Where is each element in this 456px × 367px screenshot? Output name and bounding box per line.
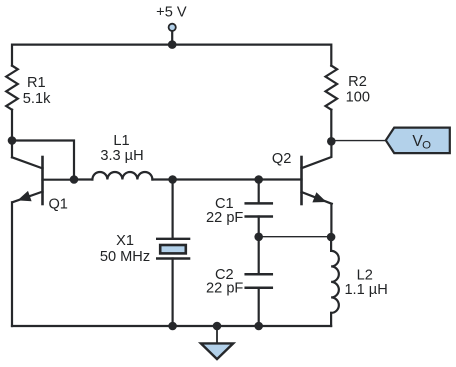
junction: Q1 base node [70, 175, 79, 184]
svg-text:50 MHz: 50 MHz [100, 249, 150, 265]
junction: L2 top node [327, 233, 336, 242]
wire: L2 bottom to ground rail [330, 313, 332, 326]
capacitor C2 [246, 274, 272, 288]
junction: X1 top node [168, 175, 177, 184]
wire: X1 bottom lead to ground rail [172, 259, 174, 327]
svg-text:100: 100 [346, 89, 370, 105]
wire: midpoint to C2 top [258, 237, 260, 274]
resistor R1 [6, 66, 18, 110]
crystal X1 [157, 239, 189, 259]
wire: midpoint node to L2 node (thin) [259, 236, 331, 238]
resistor R2 [325, 66, 337, 110]
svg-text:X1: X1 [116, 233, 134, 249]
power terminal +5V [169, 24, 176, 45]
wire: Q1 emitter down left rail to ground rail [11, 202, 13, 326]
wire: top supply rail with left and right drops [12, 45, 331, 66]
svg-text:Q1: Q1 [48, 197, 67, 213]
svg-text:22 pF: 22 pF [206, 210, 243, 226]
junction: C2 bottom on ground rail [254, 322, 263, 331]
ground [201, 326, 233, 359]
junction: output node [327, 137, 336, 146]
svg-text:R2: R2 [348, 74, 367, 90]
inductor L1 [92, 172, 152, 180]
svg-text:3.3 µH: 3.3 µH [100, 148, 143, 164]
wire: X1 top lead [172, 180, 174, 239]
wire: Q1 base node to L1 [74, 178, 92, 180]
wire: C2 bottom lead to ground rail [258, 288, 260, 326]
svg-text:R1: R1 [27, 75, 46, 91]
svg-text:L1: L1 [113, 133, 129, 149]
wire: R2 bottom to output node [330, 110, 332, 141]
output tag VO [386, 128, 450, 154]
junction: X1 bottom on ground rail [168, 322, 177, 331]
capacitor C1 [246, 203, 272, 216]
inductor L2 [331, 251, 339, 313]
junction: +5V node on top rail [168, 40, 177, 49]
svg-text:Q2: Q2 [272, 151, 291, 167]
transistor Q1 [12, 157, 74, 204]
svg-text:+5 V: +5 V [156, 5, 187, 21]
junction: C1 / Q2 base node [254, 175, 263, 184]
wire: L1 to X1 top node [152, 178, 172, 180]
wire: feedback from collector node to Q1 base node [12, 141, 74, 180]
junction: ground stub node [213, 322, 222, 331]
wire: base bus to Q2 base [259, 178, 302, 180]
svg-text:1.1 µH: 1.1 µH [344, 282, 387, 298]
svg-text:5.1k: 5.1k [23, 91, 51, 107]
wire: X1 top node to C1 node [173, 178, 259, 180]
wire: R1 bottom to Q1 collector [11, 110, 13, 158]
wire: C1 top lead [258, 180, 260, 204]
transistor Q2 [302, 141, 332, 204]
wire: C1 bottom to midpoint node [258, 217, 260, 237]
junction: feedback node (R1 / Q1 collector / base) [8, 136, 17, 145]
wire: output node to VO tag (thin) [331, 140, 386, 142]
wire: Q2 emitter to L2 top node [330, 204, 332, 237]
svg-text:O: O [422, 140, 431, 152]
wire: bottom ground rail [12, 325, 331, 327]
wire: L2 node to inductor [330, 237, 332, 251]
junction: C1-C2 midpoint node [254, 233, 263, 242]
svg-text:22 pF: 22 pF [206, 281, 243, 297]
svg-text:L2: L2 [357, 268, 373, 284]
